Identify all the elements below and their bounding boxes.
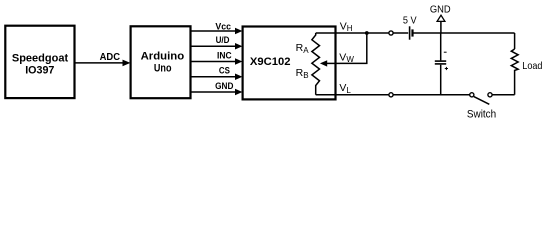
svg-text:Uno: Uno [154,63,172,75]
svg-text:GND: GND [215,81,234,91]
svg-text:Vcc: Vcc [215,22,231,32]
svg-text:U/D: U/D [216,35,230,45]
svg-text:ADC: ADC [100,52,120,63]
svg-text:Arduino: Arduino [141,51,185,63]
svg-text:Speedgoat: Speedgoat [12,53,69,65]
svg-text:Switch: Switch [467,108,496,120]
svg-text:INC: INC [217,50,232,60]
svg-text:5 V: 5 V [403,15,417,27]
svg-text:IO397: IO397 [25,65,54,77]
svg-text:GND: GND [430,3,451,15]
svg-text:X9C102: X9C102 [250,56,291,68]
svg-text:CS: CS [219,66,230,76]
svg-text:Load: Load [522,60,542,72]
